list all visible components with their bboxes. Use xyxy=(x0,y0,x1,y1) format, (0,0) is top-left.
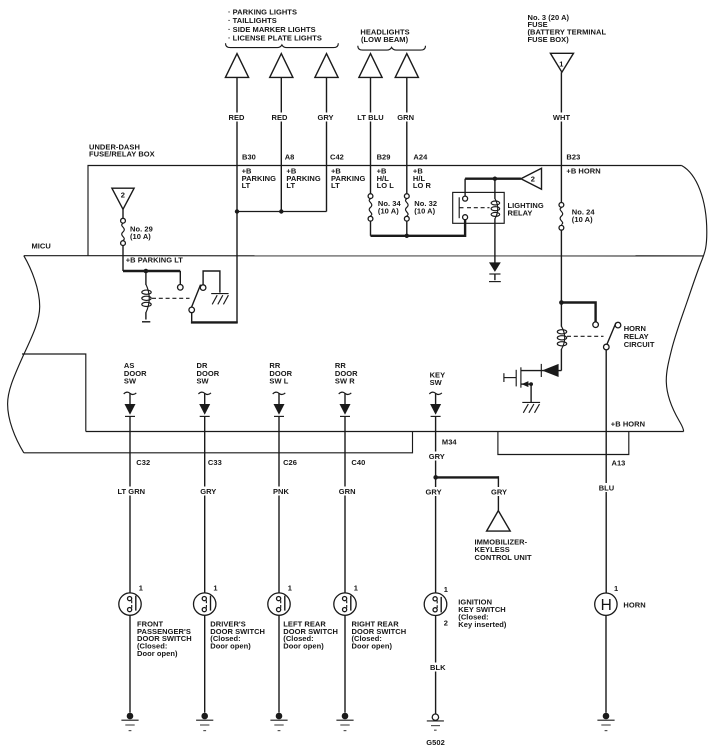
connector triangle T1 (parking lights) xyxy=(225,54,248,78)
right rear door switch label xyxy=(352,619,407,650)
svg-text:GRY: GRY xyxy=(429,452,445,461)
switch S4 right rear door xyxy=(334,583,358,615)
transistor Q1 (horn relay driver FET) xyxy=(504,367,541,402)
svg-text:(10 A): (10 A) xyxy=(130,232,151,241)
svg-text:RELAY: RELAY xyxy=(508,208,533,217)
svg-text:2: 2 xyxy=(444,619,448,628)
label GRY (M34 upper) xyxy=(427,452,447,461)
pin 2 wire to G502 xyxy=(435,616,437,714)
svg-text:Door open): Door open) xyxy=(210,642,251,651)
DR door sense branch (squiggle + diode) xyxy=(198,392,211,593)
label GRY (C33) xyxy=(198,487,218,496)
label GRN (A24 wire) xyxy=(396,113,415,122)
horn relay contact L xyxy=(593,322,599,328)
No.3 fuse label xyxy=(528,13,607,44)
lighting relay dashed link xyxy=(467,207,490,209)
horn relay coil xyxy=(557,326,566,349)
svg-text:(10 A): (10 A) xyxy=(414,206,435,215)
wire WHT below fuse 24 to horn relay coil xyxy=(560,231,562,327)
node AS DOOR SW xyxy=(124,361,147,385)
parking relay contact A drop xyxy=(179,271,181,285)
svg-text:(10 A): (10 A) xyxy=(572,215,593,224)
wire contact B to ground xyxy=(203,271,220,293)
svg-text:1: 1 xyxy=(444,585,448,594)
horn relay contact out xyxy=(604,344,610,350)
lighting relay feed bar xyxy=(465,177,521,179)
MICU torn left edge xyxy=(8,256,40,453)
svg-text:1: 1 xyxy=(139,583,143,592)
svg-text:RED: RED xyxy=(229,113,246,122)
diode to ground (lighting relay coil) xyxy=(489,262,501,281)
svg-text:Door open): Door open) xyxy=(137,649,178,658)
net label +B PARKING LT (A8) xyxy=(286,166,320,190)
ground (horn) xyxy=(597,713,614,731)
front passenger's door switch label xyxy=(137,619,192,658)
label GRN xyxy=(337,487,357,496)
svg-text:RED: RED xyxy=(272,113,289,122)
svg-text:C26: C26 xyxy=(283,458,297,467)
svg-text:BLU: BLU xyxy=(599,484,615,493)
label WHT (B23 wire) xyxy=(551,113,572,122)
junction dot B30 xyxy=(235,209,239,213)
svg-text:(LOW BEAM): (LOW BEAM) xyxy=(361,35,409,44)
chassis ground (parking relay) xyxy=(211,294,228,305)
wire +B HORN output xyxy=(605,350,607,593)
svg-text:· TAILLIGHTS: · TAILLIGHTS xyxy=(228,16,277,25)
wire GRY branch to immobilizer xyxy=(436,476,499,478)
left rear door switch label xyxy=(283,619,338,650)
net label +B PARKING LT (B30) xyxy=(242,166,276,190)
lighting relay box xyxy=(453,192,505,223)
svg-text:LT BLU: LT BLU xyxy=(357,113,383,122)
svg-text:· LICENSE PLATE LIGHTS: · LICENSE PLATE LIGHTS xyxy=(228,34,322,43)
svg-text:SW: SW xyxy=(124,377,137,386)
svg-text:CIRCUIT: CIRCUIT xyxy=(624,340,655,349)
svg-text:LT GRN: LT GRN xyxy=(117,487,145,496)
junction dot A8 xyxy=(279,209,283,213)
svg-text:2: 2 xyxy=(121,190,125,199)
ground (S1) xyxy=(121,713,138,731)
svg-text:LT: LT xyxy=(286,181,295,190)
svg-text:B29: B29 xyxy=(377,153,391,162)
parking relay arm xyxy=(192,285,201,308)
net label +B PARKING LT (C42) xyxy=(331,166,365,190)
svg-text:CONTROL UNIT: CONTROL UNIT xyxy=(475,553,532,562)
svg-text:C40: C40 xyxy=(351,458,365,467)
svg-text:A24: A24 xyxy=(413,153,428,162)
svg-text:BLK: BLK xyxy=(430,663,446,672)
label GRY (immobilizer) xyxy=(489,487,509,496)
lighting relay contact plate xyxy=(458,197,460,218)
wire LT BLU B29 xyxy=(370,77,372,193)
connector triangle T3 (marker lights) xyxy=(315,54,338,78)
wire GRN A24 xyxy=(406,77,408,193)
horn H1 xyxy=(595,584,619,616)
label LT BLU (B29 wire) xyxy=(354,113,387,122)
headlights label xyxy=(360,28,409,44)
connector triangle T2 (taillights) xyxy=(270,54,293,78)
feed triangle 2 (lighting relay) xyxy=(521,168,542,189)
svg-text:GRY: GRY xyxy=(200,487,216,496)
wire contact C to B30 wire xyxy=(191,313,193,322)
svg-text:SW R: SW R xyxy=(335,377,355,386)
node RR DOOR SW R xyxy=(335,361,358,385)
svg-text:B30: B30 xyxy=(242,153,256,162)
svg-text:LO L: LO L xyxy=(377,181,395,190)
parking relay contact B xyxy=(200,285,206,291)
net label +B H/L LO R xyxy=(413,166,432,190)
parking relay feed bar xyxy=(123,270,180,272)
label PNK xyxy=(271,487,291,496)
node DR DOOR SW xyxy=(197,361,220,385)
svg-text:1: 1 xyxy=(213,583,217,592)
horn wire to ground xyxy=(605,615,607,712)
svg-text:1: 1 xyxy=(614,584,618,593)
fuse No.32 (10 A) xyxy=(404,194,437,236)
wire RED A8 xyxy=(280,77,282,211)
junction dot relay coil feed xyxy=(493,177,497,181)
ignition key switch label xyxy=(458,597,507,629)
node RR DOOR SW L xyxy=(269,361,292,385)
svg-text:B23: B23 xyxy=(566,153,580,162)
key sense branch (squiggle + diode) xyxy=(429,392,442,593)
svg-text:MICU: MICU xyxy=(32,242,51,251)
svg-text:Door open): Door open) xyxy=(352,642,393,651)
parking relay contact C xyxy=(189,307,195,313)
label RED (A8 wire) xyxy=(270,113,289,122)
svg-text:+B PARKING LT: +B PARKING LT xyxy=(126,256,184,265)
flyback diode (horn relay) xyxy=(541,364,561,377)
svg-text:LT: LT xyxy=(242,181,251,190)
parking relay coil xyxy=(142,271,151,322)
horn relay circuit label xyxy=(624,324,655,349)
svg-text:A8: A8 xyxy=(285,153,295,162)
fuse/relay box outline (top + left) xyxy=(88,166,682,256)
switch S3 left rear door xyxy=(268,583,292,615)
connector pocket A13 xyxy=(498,432,629,455)
svg-text:Key inserted): Key inserted) xyxy=(458,620,507,629)
junction dot A24/bus xyxy=(405,234,409,238)
svg-text:HORN: HORN xyxy=(623,601,645,610)
horn relay contact R xyxy=(615,322,621,328)
connector triangle 1 (battery fuse feed) xyxy=(550,53,573,72)
svg-text:C32: C32 xyxy=(136,458,150,467)
pin 1 wire to ground S2 xyxy=(204,615,206,712)
svg-text:M34: M34 xyxy=(442,438,458,447)
chassis ground (FET source) xyxy=(522,402,540,412)
AS door sense branch (squiggle + diode) xyxy=(124,392,137,593)
svg-text:GRN: GRN xyxy=(397,113,414,122)
svg-text:LO R: LO R xyxy=(413,181,432,190)
fuse No.24 (10 A) xyxy=(559,203,595,231)
ground (S3) xyxy=(270,713,287,731)
svg-text:1: 1 xyxy=(559,59,563,68)
junction dot GRY split xyxy=(433,475,438,480)
connector pocket C32-C40 xyxy=(24,432,413,453)
net label +B H/L LO L xyxy=(377,166,395,190)
svg-text:C42: C42 xyxy=(330,153,344,162)
svg-text:FUSE/RELAY BOX: FUSE/RELAY BOX xyxy=(89,150,155,159)
svg-text:H: H xyxy=(601,597,612,614)
svg-text:FUSE BOX): FUSE BOX) xyxy=(528,35,570,44)
label GRY (key sw) xyxy=(424,487,444,496)
headlight feed bus xyxy=(371,220,466,236)
svg-text:+B HORN: +B HORN xyxy=(611,420,645,429)
pin 1 wire to ground S3 xyxy=(278,615,280,712)
svg-text:WHT: WHT xyxy=(553,113,571,122)
label GRY (C42 wire) xyxy=(316,113,335,122)
fuse No.34 (10 A) xyxy=(368,194,401,236)
label BLK xyxy=(426,663,448,672)
svg-text:GRY: GRY xyxy=(491,488,507,497)
horn relay dashed link xyxy=(567,335,604,337)
ground G502 (ignition) xyxy=(426,714,445,747)
under-dash fuse/relay box label xyxy=(89,142,155,158)
connector triangle (immobilizer-keyless control unit) xyxy=(487,511,511,531)
svg-text:(10 A): (10 A) xyxy=(378,206,399,215)
ground (S4) xyxy=(336,713,353,731)
pin 1 wire to ground S4 xyxy=(344,615,346,712)
svg-text:1: 1 xyxy=(354,583,358,592)
svg-text:GRY: GRY xyxy=(317,113,333,122)
wire GRY C42 xyxy=(326,77,328,211)
wire WHT B23 xyxy=(560,72,562,202)
brace over parking-light connectors xyxy=(226,43,339,47)
lighting relay coil xyxy=(491,179,500,263)
wire RED B30 (full drop into MICU relay) xyxy=(236,77,238,323)
connector triangle T4 (headlight low L) xyxy=(359,54,382,78)
lighting relay contact top xyxy=(463,196,468,201)
feed triangle 2 (parking fuse) xyxy=(112,188,134,209)
junction bus B30/A8/C42 xyxy=(237,211,327,213)
switch S2 driver door xyxy=(194,583,218,615)
MICU top edge xyxy=(24,255,704,257)
svg-text:SW: SW xyxy=(197,377,210,386)
fuse/relay box torn right edge xyxy=(666,166,707,432)
RR R door sense branch (squiggle + diode) xyxy=(339,392,352,593)
pin 1 wire to ground S1 xyxy=(129,615,131,712)
svg-text:G502: G502 xyxy=(426,738,445,747)
svg-text:PNK: PNK xyxy=(273,487,290,496)
svg-text:C33: C33 xyxy=(208,458,222,467)
immobilizer-keyless control unit label xyxy=(475,537,532,562)
junction dot parking coil xyxy=(144,269,149,274)
horn relay arm xyxy=(607,323,616,345)
MICU inner shelf xyxy=(22,354,86,432)
parking relay contact A xyxy=(178,285,184,291)
svg-text:GRY: GRY xyxy=(426,488,442,497)
lighting relay label xyxy=(508,201,544,217)
connector triangle T5 (headlight low R) xyxy=(395,54,418,78)
svg-text:· SIDE MARKER LIGHTS: · SIDE MARKER LIGHTS xyxy=(228,25,316,34)
svg-text:LT: LT xyxy=(331,181,340,190)
svg-text:SW L: SW L xyxy=(269,377,288,386)
lighting relay contact bottom xyxy=(463,215,468,220)
svg-text:· PARKING LIGHTS: · PARKING LIGHTS xyxy=(228,8,297,17)
svg-text:1: 1 xyxy=(288,583,292,592)
driver's door switch label xyxy=(210,619,265,650)
switch S5 ignition key xyxy=(424,585,448,628)
switch S1 front passenger door xyxy=(119,583,143,615)
fuse No.29 (10 A) xyxy=(121,209,153,271)
svg-text:Door open): Door open) xyxy=(283,642,324,651)
parking relay dashed link xyxy=(152,297,190,299)
MICU bottom edge xyxy=(86,431,684,433)
label RED (B30 wire) xyxy=(227,113,246,122)
label LT GRN xyxy=(115,487,148,496)
svg-text:GRN: GRN xyxy=(339,487,356,496)
brace over headlight connectors xyxy=(358,46,426,50)
svg-text:SW: SW xyxy=(430,378,443,387)
wire horn relay contact feed xyxy=(561,303,595,322)
label BLU xyxy=(597,483,617,492)
ground (S2) xyxy=(196,713,213,731)
node KEY SW xyxy=(430,370,446,387)
svg-text:2: 2 xyxy=(531,175,535,184)
RR L door sense branch (squiggle + diode) xyxy=(273,392,286,593)
svg-text:+B HORN: +B HORN xyxy=(566,166,600,175)
load list: parking/tail/marker/license lights xyxy=(228,8,322,43)
svg-text:A13: A13 xyxy=(612,459,626,468)
junction dot horn feed xyxy=(559,300,564,305)
